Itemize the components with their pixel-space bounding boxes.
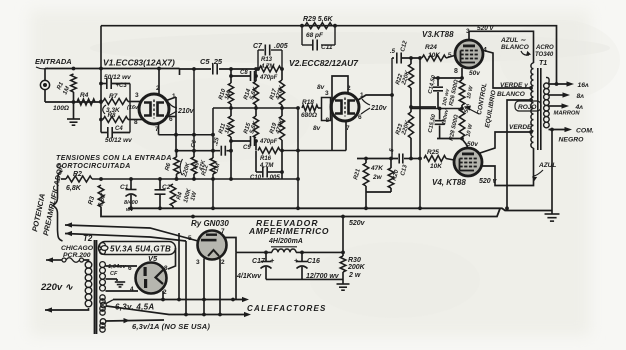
svg-text:R16: R16	[260, 156, 272, 162]
svg-text:CORTOCIRCUITADA: CORTOCIRCUITADA	[56, 163, 131, 170]
svg-text:C2: C2	[162, 184, 171, 191]
svg-text:10K: 10K	[428, 52, 441, 59]
svg-text:4H/200mA: 4H/200mA	[268, 238, 303, 245]
svg-text:50v: 50v	[469, 70, 480, 77]
svg-text:R13: R13	[261, 57, 273, 63]
svg-text:BLANCO: BLANCO	[501, 44, 529, 51]
svg-text:680Ω: 680Ω	[301, 112, 317, 119]
svg-text:COM.: COM.	[576, 128, 594, 135]
svg-text:2: 2	[156, 85, 160, 92]
svg-text:2w: 2w	[372, 174, 383, 181]
svg-text:6: 6	[358, 114, 362, 121]
svg-text:68 pF: 68 pF	[306, 32, 324, 39]
svg-text:MARRON: MARRON	[554, 111, 581, 117]
svg-text:ENTRADA: ENTRADA	[35, 57, 72, 66]
svg-text:R2: R2	[73, 171, 82, 178]
svg-text:8: 8	[164, 265, 168, 272]
svg-text:CALEFACTORES: CALEFACTORES	[247, 304, 327, 313]
svg-text:TENSIONES CON LA ENTRADA: TENSIONES CON LA ENTRADA	[56, 155, 172, 162]
svg-text:10K: 10K	[430, 163, 443, 170]
svg-text:R18: R18	[302, 99, 314, 106]
svg-text:NEGRO: NEGRO	[559, 137, 585, 144]
svg-text:C5 .25: C5 .25	[200, 57, 223, 66]
svg-text:8: 8	[454, 68, 458, 75]
svg-text:7: 7	[221, 228, 225, 235]
svg-text:+: +	[270, 256, 275, 265]
svg-text:V2.ECC82/12AU7: V2.ECC82/12AU7	[289, 58, 359, 68]
svg-text:BLANCO: BLANCO	[497, 91, 525, 98]
svg-text:C17: C17	[252, 258, 266, 265]
svg-text:47K: 47K	[370, 165, 384, 172]
svg-text:C1: C1	[120, 184, 129, 191]
svg-text:R4: R4	[80, 92, 89, 99]
svg-text:5: 5	[448, 52, 452, 59]
svg-text:C7: C7	[253, 43, 263, 50]
svg-text:4: 4	[130, 286, 134, 293]
svg-text:.005: .005	[268, 175, 280, 181]
svg-text:+C3: +C3	[116, 83, 128, 89]
svg-text:220v ∿: 220v ∿	[40, 282, 74, 293]
svg-text:470pF: 470pF	[259, 75, 278, 81]
svg-text:T1: T1	[539, 60, 547, 67]
svg-text:8ʌ: 8ʌ	[577, 93, 585, 100]
svg-text:AZUL ∼: AZUL ∼	[500, 37, 526, 44]
svg-text:ACRO: ACRO	[535, 45, 554, 51]
svg-text:TO340: TO340	[535, 52, 554, 58]
svg-text:C16: C16	[307, 258, 320, 265]
svg-text:3: 3	[196, 259, 200, 266]
svg-text:T2: T2	[83, 234, 93, 243]
svg-text:C10: C10	[250, 175, 262, 181]
svg-text:100Ω: 100Ω	[53, 105, 69, 112]
svg-text:6,3v/1A (NO SE USA): 6,3v/1A (NO SE USA)	[132, 322, 210, 331]
svg-text:200K: 200K	[347, 264, 366, 271]
svg-text:1,04cv: 1,04cv	[108, 264, 127, 270]
svg-text:8/400: 8/400	[124, 200, 138, 206]
svg-text:Ry GN030: Ry GN030	[191, 219, 229, 228]
svg-text:AZUL: AZUL	[538, 162, 556, 169]
svg-text:5: 5	[188, 235, 192, 242]
svg-text:8v: 8v	[313, 125, 321, 132]
svg-text:R24: R24	[425, 44, 437, 51]
svg-text:+: +	[294, 256, 299, 265]
svg-text:5V.3A 5U4,GTB: 5V.3A 5U4,GTB	[110, 245, 171, 254]
svg-text:2: 2	[221, 259, 225, 266]
svg-text:R29 5,6K: R29 5,6K	[303, 16, 334, 23]
svg-text:(16v: (16v	[127, 105, 139, 111]
svg-text:8: 8	[134, 119, 138, 126]
svg-text:6,8K: 6,8K	[66, 185, 82, 192]
svg-text:V1.ECC83(12AX7): V1.ECC83(12AX7)	[103, 58, 175, 68]
svg-text:V3.KT88: V3.KT88	[422, 30, 454, 39]
svg-text:CHICAGO: CHICAGO	[61, 245, 94, 252]
svg-text:3: 3	[325, 90, 329, 97]
svg-text:4,7M: 4,7M	[260, 64, 275, 70]
svg-text:520v: 520v	[349, 220, 366, 227]
svg-text:210v: 210v	[370, 105, 388, 112]
svg-text:50/12 wv: 50/12 wv	[104, 74, 131, 81]
svg-text:R30: R30	[348, 257, 361, 264]
svg-text:AMPERIMETRICO: AMPERIMETRICO	[248, 226, 329, 236]
svg-text:C8: C8	[240, 70, 248, 76]
svg-text:50/12 wv: 50/12 wv	[105, 137, 132, 144]
svg-text:50v: 50v	[467, 141, 478, 148]
svg-text:C11: C11	[321, 44, 333, 51]
svg-text:4/1Kwv: 4/1Kwv	[236, 273, 262, 280]
svg-text:.005: .005	[274, 43, 288, 50]
svg-text:C4: C4	[115, 126, 123, 132]
svg-text:V4, KT88: V4, KT88	[432, 178, 466, 187]
svg-text:210v: 210v	[177, 108, 195, 115]
svg-text:2 w: 2 w	[348, 272, 361, 279]
svg-text:8v: 8v	[317, 84, 325, 91]
svg-text:.5: .5	[390, 49, 396, 55]
svg-text:CF: CF	[110, 271, 118, 277]
svg-text:3: 3	[135, 92, 139, 99]
svg-text:16ʌ: 16ʌ	[578, 82, 590, 89]
svg-text:VERDE: VERDE	[509, 124, 532, 131]
svg-text:ROJO: ROJO	[518, 104, 536, 111]
svg-text:520 v: 520 v	[477, 25, 494, 32]
svg-text:VERDE y: VERDE y	[500, 82, 528, 89]
svg-text:8: 8	[326, 117, 330, 124]
svg-text:R25: R25	[427, 149, 439, 156]
svg-text:C9: C9	[243, 145, 251, 151]
svg-text:wv: wv	[126, 207, 134, 213]
svg-text:R7: R7	[109, 93, 118, 100]
svg-text:R8: R8	[108, 112, 116, 119]
svg-text:470pF: 470pF	[259, 139, 278, 145]
